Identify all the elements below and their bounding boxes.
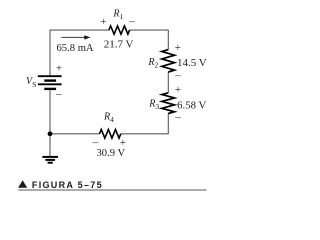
wire: bottom rail from R4 to junction dot — [50, 133, 100, 135]
svg-text:R3: R3 — [148, 99, 159, 112]
wire: top rail right segment from R1 to top-right corner — [130, 29, 169, 31]
caption triangle — [18, 180, 27, 188]
wire: left vertical from top rail down to source + plate — [49, 30, 51, 75]
resistor R1 zigzag — [109, 26, 130, 34]
battery VS: short plate 2 — [44, 79, 56, 81]
svg-text:R1: R1 — [112, 9, 123, 22]
battery VS: long plate 1 — [38, 75, 62, 77]
battery VS: long plate 3 — [38, 83, 62, 85]
label R1 — [112, 9, 123, 22]
battery VS: short plate 4 — [44, 88, 56, 90]
caption text FIGURA 5-75 — [32, 180, 103, 190]
battery minus sign — [55, 88, 62, 100]
svg-text:VS: VS — [26, 76, 36, 89]
svg-text:–: – — [55, 88, 62, 100]
label VS — [26, 76, 36, 89]
battery plus sign — [56, 63, 62, 75]
current arrow 65.8 mA — [61, 35, 90, 39]
label 21.7 V — [104, 39, 134, 51]
resistor R4 zigzag — [100, 130, 121, 139]
svg-text:–: – — [92, 136, 99, 148]
wire: right vertical from R3 to bottom-right corner — [167, 114, 169, 134]
label R3 — [148, 99, 159, 112]
svg-text:+: + — [56, 63, 62, 75]
R2 minus sign — [174, 69, 181, 81]
R1 minus sign — [128, 15, 135, 27]
resistor R3 zigzag — [162, 93, 175, 114]
svg-text:–: – — [174, 69, 181, 81]
R4 minus sign — [92, 136, 99, 148]
svg-text:+: + — [175, 84, 181, 96]
R1 plus sign — [100, 16, 106, 28]
wire: right vertical between R2 and R3 — [167, 72, 169, 93]
svg-text:–: – — [128, 15, 135, 27]
R3 plus sign — [175, 84, 181, 96]
svg-text:21.7 V: 21.7 V — [104, 39, 134, 51]
wire: top rail left segment to R1 — [50, 29, 109, 31]
svg-text:R2: R2 — [147, 57, 158, 70]
svg-text:+: + — [175, 42, 181, 54]
wire: left vertical from source - plate down to junction — [49, 90, 51, 134]
svg-text:FIGURA 5–75: FIGURA 5–75 — [32, 180, 103, 190]
svg-text:6.58 V: 6.58 V — [177, 100, 206, 112]
R4 plus sign — [120, 137, 126, 149]
svg-text:+: + — [120, 137, 126, 149]
svg-text:65.8 mA: 65.8 mA — [57, 43, 94, 54]
label 6.58 V — [177, 100, 206, 112]
wire: right vertical from corner down to R2 — [167, 30, 169, 50]
resistor R2 zigzag — [162, 50, 175, 72]
svg-text:–: – — [174, 111, 181, 123]
svg-text:14.5 V: 14.5 V — [177, 57, 207, 69]
svg-text:+: + — [100, 16, 106, 28]
svg-text:R4: R4 — [103, 112, 114, 125]
R3 minus sign — [174, 111, 181, 123]
R2 plus sign — [175, 42, 181, 54]
node: junction dot at bottom-left — [48, 131, 53, 136]
caption rule — [18, 189, 206, 191]
wire: junction down to ground — [49, 134, 51, 157]
label R4 — [103, 112, 114, 125]
label 65.8 mA — [57, 43, 94, 54]
label 30.9 V — [97, 148, 126, 159]
svg-text:30.9 V: 30.9 V — [97, 148, 126, 159]
label R2 — [147, 57, 158, 70]
wire: bottom rail from corner to R4 — [121, 133, 169, 135]
ground symbol — [42, 157, 58, 163]
label 14.5 V — [177, 57, 207, 69]
